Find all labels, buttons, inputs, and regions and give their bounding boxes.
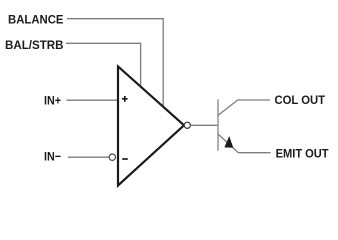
transistor Q1 collector lead [218,100,270,115]
wire BALANCE to comparator top [67,19,163,107]
svg-text:IN+: IN+ [44,94,61,108]
plus marker on noninverting input [122,96,128,102]
output bubble [184,122,190,128]
inverting input bubble [109,154,115,160]
minus marker on inverting input [122,158,128,160]
svg-text:EMIT OUT: EMIT OUT [276,147,329,161]
op-amp comparator U1 [118,66,184,185]
transistor Q1 base bar [217,99,219,150]
wire IN- to inverting input bubble [68,156,109,158]
wire BAL/STRB to comparator top [66,43,141,87]
wire IN+ to noninverting input [66,99,117,101]
svg-text:COL OUT: COL OUT [275,93,326,107]
svg-text:IN−: IN− [44,150,61,164]
emitter arrow [224,136,233,148]
transistor Q1 emitter lead [218,134,271,153]
svg-text:BAL/STRB: BAL/STRB [5,38,64,52]
wire comparator output to transistor base [191,124,218,126]
svg-text:BALANCE: BALANCE [8,12,64,26]
